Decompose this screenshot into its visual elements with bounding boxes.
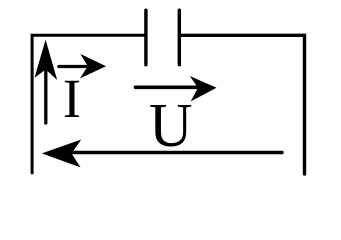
svg-text:I: I bbox=[63, 68, 81, 129]
svg-text:U: U bbox=[149, 90, 193, 160]
